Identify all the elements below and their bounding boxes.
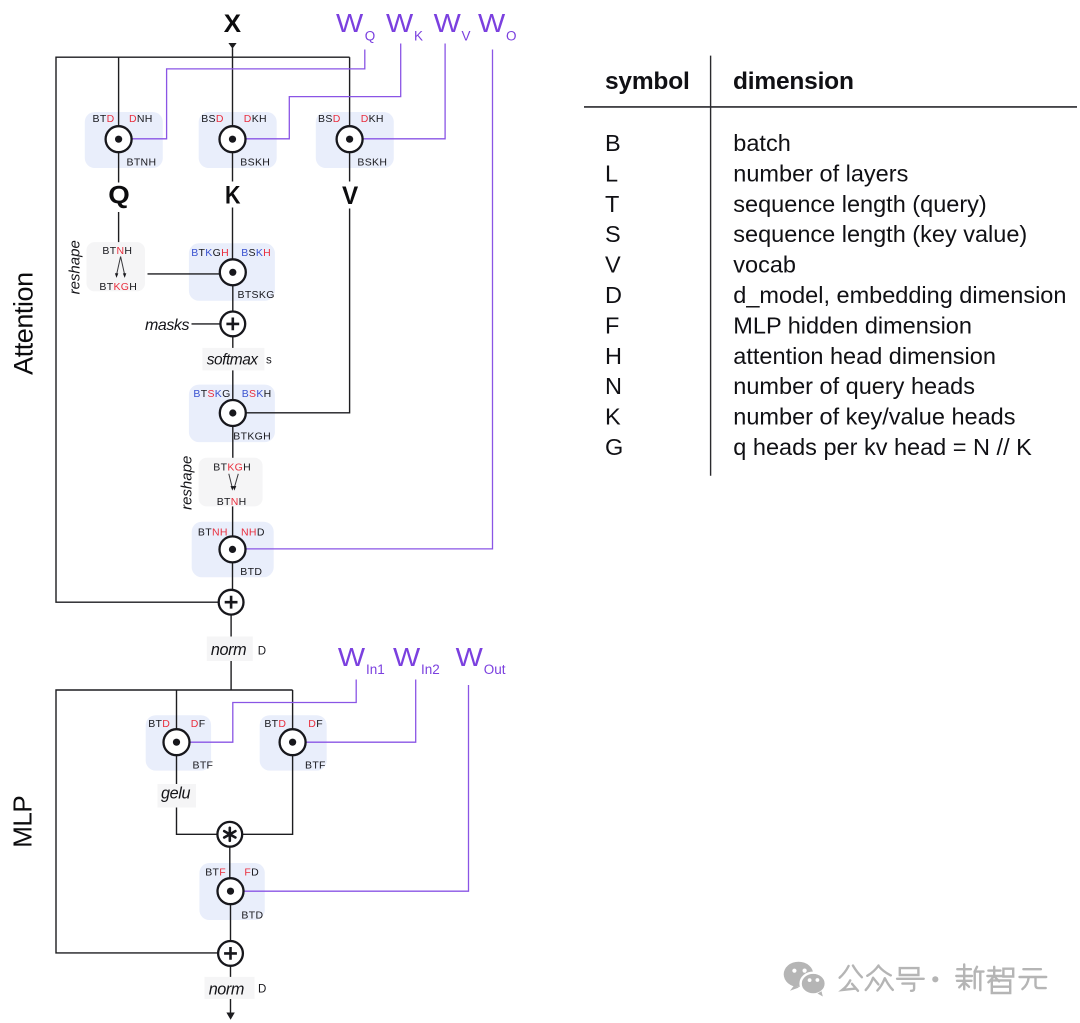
mlp-down labels <box>205 867 263 922</box>
svg-text:G: G <box>605 434 623 460</box>
wire MLP top edge and residual skip <box>56 690 293 953</box>
svg-text:BSKH: BSKH <box>357 157 387 169</box>
svg-text:softmax: softmax <box>207 352 260 369</box>
svg-text:X: X <box>224 10 242 38</box>
watermark wechat icon big bubble <box>784 962 814 991</box>
table row D <box>605 282 1066 308</box>
einsum node QK <box>220 259 246 285</box>
einsum node AV <box>220 400 246 426</box>
arrowhead output <box>226 1013 234 1020</box>
einsum node mlp-gate <box>164 729 190 755</box>
einsum box Q-proj <box>85 112 163 168</box>
wire W_Out purple <box>244 685 469 891</box>
svg-text:K: K <box>225 182 241 210</box>
wire Q-proj to Q label <box>118 152 120 182</box>
wire star to down einsum <box>229 847 231 879</box>
einsum box mlp-up <box>260 715 327 770</box>
wire W_K purple <box>246 44 401 139</box>
softmax box <box>202 348 264 371</box>
svg-text:Q: Q <box>365 29 376 44</box>
svg-text:symbol: symbol <box>605 68 690 95</box>
einsum node K-proj <box>220 126 246 152</box>
einsum box K-proj <box>199 112 277 168</box>
AV labels <box>193 388 271 443</box>
wire attention top edge and residual skip <box>56 57 350 602</box>
svg-text:vocab: vocab <box>733 252 796 278</box>
svg-text:sequence length (query): sequence length (query) <box>733 191 986 217</box>
watermark wechat icon eyes <box>792 969 819 982</box>
svg-text:S: S <box>605 221 621 247</box>
svg-text:BTD: BTD <box>240 566 262 578</box>
reshape box 1 <box>87 242 146 291</box>
table row H <box>605 343 996 369</box>
wire K label to QK einsum <box>232 208 234 260</box>
svg-text:D: D <box>258 646 267 658</box>
einsum node mlp-down <box>218 878 244 904</box>
wire up branch <box>292 690 294 729</box>
multiply node star <box>217 822 242 847</box>
svg-text:batch: batch <box>733 130 791 156</box>
wire reshape2 to out-proj <box>232 506 234 536</box>
svg-text:BTD: BTD <box>148 718 170 730</box>
svg-text:d_model, embedding dimension: d_model, embedding dimension <box>733 282 1066 308</box>
svg-text:W: W <box>478 8 506 38</box>
out-proj labels <box>198 526 265 578</box>
table row L <box>605 160 908 186</box>
svg-text:BSKH: BSKH <box>242 388 272 400</box>
wire residual add 1 to norm1 <box>230 615 232 637</box>
svg-text:s: s <box>266 355 272 367</box>
wire masks label to add <box>192 323 221 325</box>
wire AV einsum to reshape2 <box>232 426 234 458</box>
add node residual 2 <box>218 941 243 966</box>
wire W_V purple <box>363 44 445 139</box>
svg-text:W: W <box>434 8 462 38</box>
table vertical rule <box>710 56 712 476</box>
svg-text:N: N <box>605 373 622 399</box>
svg-text:BSKH: BSKH <box>241 247 271 259</box>
svg-text:gelu: gelu <box>161 785 191 803</box>
svg-text:DNH: DNH <box>129 113 153 125</box>
wire QK to masks add <box>232 285 234 311</box>
einsum box mlp-down <box>199 863 264 920</box>
svg-text:H: H <box>605 343 622 369</box>
table row T <box>605 191 987 217</box>
watermark hanzi gong (public) <box>840 966 862 991</box>
einsum box AV <box>189 385 275 443</box>
svg-text:number of layers: number of layers <box>733 160 908 186</box>
svg-text:sequence length (key value): sequence length (key value) <box>733 221 1027 247</box>
wire W_Q purple <box>132 50 365 139</box>
reshape1 arrows <box>115 257 126 278</box>
wire Q label to reshape1 <box>118 212 120 242</box>
wire masks add to softmax <box>232 336 234 348</box>
table row K <box>605 404 1015 430</box>
svg-text:norm: norm <box>209 981 244 999</box>
wire V label to AV einsum <box>246 209 350 413</box>
wire up einsum to star <box>242 755 292 834</box>
einsum box mlp-gate <box>146 715 211 770</box>
watermark hanzi yuan (origin) <box>1020 969 1047 989</box>
svg-text:L: L <box>605 160 618 186</box>
mlp-up labels <box>264 718 325 772</box>
svg-text:F: F <box>605 312 619 338</box>
V-proj labels <box>318 113 387 169</box>
reshape box 2 <box>199 458 263 507</box>
svg-text:Attention: Attention <box>8 272 38 375</box>
wire norm1 to MLP top edge <box>230 661 232 690</box>
svg-text:BTKGH: BTKGH <box>191 247 229 259</box>
svg-text:BTSKG: BTSKG <box>193 388 230 400</box>
svg-text:MLP: MLP <box>7 796 37 848</box>
svg-text:BTD: BTD <box>264 718 286 730</box>
wire reshape1 to QK einsum <box>148 273 221 275</box>
svg-text:O: O <box>506 29 517 44</box>
watermark middle dot <box>932 976 938 982</box>
svg-text:In1: In1 <box>366 662 385 677</box>
svg-text:BTKGH: BTKGH <box>99 281 137 293</box>
watermark wechat icon small bubble tail <box>818 991 823 996</box>
svg-text:reshape: reshape <box>179 456 196 510</box>
svg-text:BTF: BTF <box>193 760 214 772</box>
svg-text:DKH: DKH <box>361 113 384 125</box>
svg-text:BTKGH: BTKGH <box>233 431 271 443</box>
svg-text:V: V <box>605 252 621 278</box>
svg-text:BSKH: BSKH <box>240 157 270 169</box>
wire V branch <box>349 57 351 126</box>
einsum node V-proj <box>337 126 363 152</box>
einsum node mlp-up <box>280 729 306 755</box>
svg-text:V: V <box>462 29 471 44</box>
wire gelu to star <box>177 808 218 835</box>
svg-text:DF: DF <box>191 718 206 730</box>
wire K-proj to K label <box>232 152 234 181</box>
table row S <box>605 221 1027 247</box>
add node masks <box>220 312 245 337</box>
wire X input <box>232 48 234 126</box>
svg-text:BTF: BTF <box>305 760 326 772</box>
svg-text:FD: FD <box>244 867 259 879</box>
svg-text:NHD: NHD <box>241 526 265 538</box>
wire W_O purple <box>246 50 493 549</box>
wire gate einsum to gelu <box>176 755 178 784</box>
watermark hanzi hao (number) <box>897 968 924 991</box>
svg-text:BTNH: BTNH <box>198 526 228 538</box>
wire V-proj to V label <box>349 152 351 181</box>
gelu box <box>158 784 197 808</box>
einsum box out-proj <box>192 522 274 578</box>
svg-text:B: B <box>605 130 621 156</box>
einsum box QK <box>189 243 275 300</box>
watermark wechat icon small bubble <box>801 973 826 995</box>
reshape1 labels <box>99 245 137 293</box>
einsum node out-proj <box>220 536 246 562</box>
watermark hanzi zhi (wisdom) <box>987 967 1013 993</box>
svg-text:V: V <box>342 182 359 210</box>
K-proj labels <box>201 113 270 169</box>
wire Q branch <box>118 57 120 126</box>
svg-text:attention head dimension: attention head dimension <box>733 343 996 369</box>
svg-text:norm: norm <box>211 641 246 659</box>
svg-text:masks: masks <box>145 317 189 334</box>
wire down einsum to residual add 2 <box>230 904 232 941</box>
wire norm2 to output arrow <box>230 999 232 1013</box>
wire gate branch <box>176 690 178 729</box>
table row N <box>605 373 975 399</box>
table horizontal rule <box>584 106 1077 108</box>
watermark hanzi xin (new) <box>956 965 983 991</box>
svg-text:Out: Out <box>484 662 506 677</box>
norm1 box <box>207 637 253 662</box>
svg-text:K: K <box>414 29 423 44</box>
svg-text:BTD: BTD <box>241 910 263 922</box>
svg-text:DKH: DKH <box>244 113 267 125</box>
svg-text:BTNH: BTNH <box>217 496 247 508</box>
svg-text:K: K <box>605 404 621 430</box>
svg-text:DF: DF <box>308 718 323 730</box>
svg-text:W: W <box>393 642 421 672</box>
einsum node Q-proj <box>106 126 132 152</box>
norm2 box <box>205 977 255 999</box>
svg-text:dimension: dimension <box>733 68 854 95</box>
svg-text:BTF: BTF <box>205 867 226 879</box>
svg-text:Q: Q <box>108 182 130 210</box>
table row G <box>605 434 1032 460</box>
Q-proj labels <box>93 113 157 169</box>
svg-text:T: T <box>605 191 619 217</box>
svg-text:In2: In2 <box>421 662 440 677</box>
wire out-proj to residual add 1 <box>232 563 234 590</box>
svg-text:BTSKG: BTSKG <box>238 289 275 301</box>
mlp-gate labels <box>148 718 213 772</box>
svg-text:BSD: BSD <box>318 113 341 125</box>
QK labels <box>191 247 275 301</box>
wire W_In1 purple <box>190 680 357 743</box>
svg-text:number of query heads: number of query heads <box>733 373 975 399</box>
table row B <box>605 130 791 156</box>
svg-text:MLP hidden dimension: MLP hidden dimension <box>733 312 972 338</box>
svg-text:W: W <box>336 8 364 38</box>
wire W_In2 purple <box>306 680 416 743</box>
svg-text:BTKGH: BTKGH <box>213 461 251 473</box>
svg-text:W: W <box>456 642 484 672</box>
svg-text:reshape: reshape <box>67 240 84 294</box>
wire residual add 2 to norm2 <box>230 966 232 977</box>
svg-text:D: D <box>258 984 267 996</box>
einsum box V-proj <box>316 112 394 168</box>
svg-text:W: W <box>338 642 366 672</box>
svg-text:BTNH: BTNH <box>127 157 157 169</box>
svg-text:q heads per kv head = N // K: q heads per kv head = N // K <box>733 434 1032 460</box>
watermark hanzi zhong (crowd) <box>866 966 893 991</box>
svg-text:BTD: BTD <box>93 113 115 125</box>
svg-text:BTNH: BTNH <box>102 245 132 257</box>
add node residual 1 <box>219 590 244 615</box>
reshape2 labels <box>213 461 251 508</box>
arrowhead X input <box>228 43 236 49</box>
wire softmax to AV einsum <box>232 370 234 400</box>
reshape2 arrows <box>229 474 239 491</box>
table row F <box>605 312 972 338</box>
svg-text:D: D <box>605 282 622 308</box>
svg-text:BSD: BSD <box>201 113 224 125</box>
svg-text:W: W <box>386 8 414 38</box>
svg-text:number of key/value heads: number of key/value heads <box>733 404 1015 430</box>
table row V <box>605 252 796 278</box>
